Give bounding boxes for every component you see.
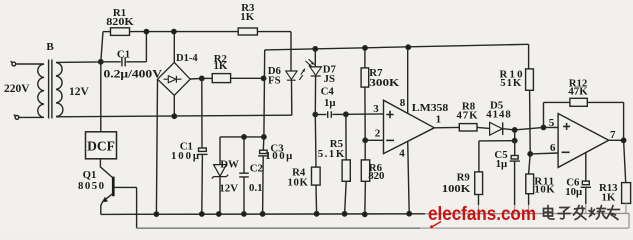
- resistor R1 820K: [103, 28, 130, 36]
- wire node down to C1 100u: [201, 78, 203, 148]
- svg-text:1μ: 1μ: [324, 97, 336, 109]
- diode D5 4148: [490, 122, 503, 135]
- svg-text:1: 1: [436, 113, 442, 125]
- junction C1 100u on ground rail: [200, 212, 204, 216]
- wire D7 anode to wire B: [314, 49, 316, 67]
- junction R2 right: [261, 76, 265, 80]
- resistor R8 47K: [459, 124, 477, 131]
- svg-text:4: 4: [399, 147, 405, 159]
- wire C5 node short drop: [514, 130, 516, 141]
- svg-text:2: 2: [375, 128, 381, 140]
- svg-text:12V: 12V: [219, 183, 238, 195]
- wire R12 left to tap: [544, 102, 570, 127]
- wire R3 to D6 drop: [257, 32, 291, 71]
- wire op-amp1 output to R8: [434, 126, 459, 128]
- LED D7 JS: [310, 67, 322, 76]
- wire R4 top (shares D7/C4 node line): [314, 115, 317, 168]
- svg-text:100μ: 100μ: [265, 150, 292, 162]
- junction R7 on wire B: [363, 46, 367, 50]
- wire pin2 into op-amp: [365, 139, 383, 141]
- wire R1 left vertical: [101, 32, 103, 62]
- svg-text:300K: 300K: [369, 77, 400, 89]
- svg-text:1K: 1K: [240, 11, 254, 23]
- bridge rectifier D1-4: [158, 62, 191, 95]
- svg-text:820: 820: [368, 170, 384, 182]
- svg-text:3: 3: [373, 103, 379, 115]
- watermark chinese 电子发烧友: [544, 206, 620, 220]
- wire secondary top to node C1: [56, 61, 101, 64]
- wire R9 to ground rail: [478, 195, 480, 206]
- svg-text:0.1: 0.1: [249, 182, 263, 194]
- resistor R2 1K: [202, 74, 231, 83]
- junction C2 on ground rail: [242, 212, 246, 216]
- junction C5 top node: [513, 128, 517, 132]
- svg-text:C4: C4: [321, 85, 335, 97]
- char you: [607, 206, 620, 220]
- wire R7 bottom to pin2 node: [364, 87, 366, 140]
- wire R2 right to node: [231, 77, 264, 79]
- wire output down to R13: [624, 140, 626, 182]
- junction R12 tap: [541, 125, 545, 129]
- wire node to C1 left plate: [101, 61, 121, 63]
- junction C2 top: [242, 135, 246, 139]
- svg-text:B: B: [46, 41, 54, 53]
- wire bridge left corner down to ground rail: [156, 79, 157, 214]
- svg-text:DCF: DCF: [87, 139, 115, 154]
- resistor R10 51K: [526, 69, 534, 90]
- wire pin8 to wire B: [407, 47, 409, 113]
- svg-text:47K: 47K: [457, 109, 479, 121]
- wire R6 to ground rail: [364, 181, 367, 214]
- svg-text:0.2μ/400V: 0.2μ/400V: [104, 67, 163, 81]
- wire D7 cathode down to C4 node: [314, 76, 316, 114]
- svg-text:10μ: 10μ: [565, 186, 582, 198]
- resistor R7 300K: [361, 48, 369, 87]
- capacitor C4 1u: [328, 111, 332, 118]
- transistor Q1 8050: [112, 177, 115, 197]
- svg-text:5: 5: [549, 117, 555, 129]
- svg-text:LM358: LM358: [412, 102, 449, 114]
- capacitor C1 100u electrolytic: [197, 148, 207, 154]
- wire primary top lead: [16, 63, 44, 65]
- svg-text:D1-4: D1-4: [176, 53, 198, 64]
- resistor R3 1K: [238, 28, 257, 35]
- junction DW on ground rail: [217, 212, 221, 216]
- wire pin3 into op-amp: [346, 113, 384, 115]
- junction pin8 on wire B: [406, 45, 410, 49]
- svg-text:C1: C1: [117, 48, 130, 60]
- junction bridge-left on ground rail: [154, 212, 158, 216]
- wire Q1 base to feedback line: [115, 187, 137, 228]
- junction bridge bottom on mid rail: [172, 114, 176, 118]
- svg-text:100μ: 100μ: [171, 150, 199, 162]
- wire C6 to ground rail: [585, 187, 587, 204]
- svg-text:C2: C2: [250, 162, 263, 174]
- minus sign op-amp2: [562, 151, 570, 153]
- junction pin6/R11: [528, 152, 532, 156]
- svg-text:820K: 820K: [106, 16, 134, 28]
- junction pin2/R6: [363, 138, 367, 142]
- char fa: [574, 206, 587, 220]
- svg-text:1K: 1K: [602, 192, 616, 204]
- capacitor C1 0.2u/400V: [122, 57, 125, 66]
- plus sign op-amp2: [563, 123, 570, 130]
- wire B right corner down to R10: [528, 44, 530, 69]
- wire C5 to ground rail: [514, 161, 516, 205]
- resistor R13 1K: [622, 183, 631, 204]
- wire pin6 into op-amp2: [530, 152, 558, 155]
- svg-text:47K: 47K: [568, 85, 588, 97]
- wire op-amp2 output: [609, 139, 624, 141]
- svg-text:10K: 10K: [288, 176, 309, 188]
- junction R4 on ground rail: [314, 212, 318, 216]
- wire R11 to ground rail: [528, 194, 530, 205]
- LED D6 FS: [286, 71, 297, 80]
- svg-text:DW: DW: [220, 159, 239, 171]
- transformer B secondary winding: [56, 62, 63, 116]
- node bridge output junction: [200, 76, 204, 80]
- junction output node: [621, 138, 625, 142]
- transformer B primary winding: [38, 64, 44, 117]
- node junction C1/transformer: [99, 60, 103, 64]
- capacitor C2 0.1: [239, 137, 249, 214]
- Q1 emitter with arrow: [101, 194, 113, 215]
- wire D6 cathode down to mid rail corner: [291, 80, 293, 115]
- wire branch to R9: [479, 141, 515, 172]
- transformer B primary terminal bottom: [14, 115, 19, 120]
- feedback base line darker left part: [137, 227, 420, 229]
- char dian: [544, 206, 555, 220]
- resistor R4 10K: [312, 167, 321, 214]
- svg-text:1μ: 1μ: [496, 158, 508, 170]
- wire bridge right corner to node: [190, 77, 202, 80]
- zener diode DW 12V: [212, 137, 228, 214]
- svg-text:8050: 8050: [78, 180, 104, 192]
- svg-text:Q1: Q1: [83, 169, 97, 181]
- wire into pin5: [544, 126, 559, 128]
- junction pin4 on ground rail: [407, 212, 411, 216]
- wire DW node horizontal: [220, 136, 264, 138]
- junction R5 on ground rail: [342, 212, 346, 216]
- svg-text:100K: 100K: [442, 183, 471, 195]
- junction R5 top: [344, 112, 348, 116]
- op-amp U2: [558, 114, 609, 168]
- wire B top rail sloped: [265, 44, 529, 50]
- junction bridge top on wire A: [172, 29, 176, 33]
- svg-text:5.1K: 5.1K: [318, 148, 345, 160]
- svg-text:6: 6: [550, 142, 556, 154]
- svg-text:220V: 220V: [4, 83, 30, 95]
- capacitor C6 10u electrolytic: [581, 153, 592, 188]
- svg-text:12V: 12V: [69, 86, 90, 98]
- transformer B core: [49, 60, 52, 119]
- char zi: [558, 208, 570, 219]
- capacitor C5 1u electrolytic: [510, 141, 520, 161]
- svg-text:7: 7: [610, 129, 616, 141]
- flash arrow of D6: [299, 69, 304, 80]
- junction C3 on ground rail: [260, 212, 264, 216]
- wire C4 to R5 node: [332, 113, 346, 115]
- watermark elecfans.com: [428, 203, 536, 228]
- wire primary bottom lead: [19, 116, 44, 118]
- wire R13 to ground rail: [625, 203, 627, 213]
- resistor R12 47K: [570, 98, 587, 106]
- junction C4 left node: [313, 112, 317, 116]
- wire pin4 to ground rail: [408, 141, 410, 213]
- svg-text:FS: FS: [268, 74, 281, 86]
- capacitor C3 100u electrolytic: [258, 137, 268, 214]
- char shao: [589, 206, 607, 220]
- svg-text:51K: 51K: [500, 77, 522, 89]
- junction D7 on wire B: [313, 47, 317, 51]
- junction R6 on ground rail: [363, 212, 367, 216]
- wire R10 to pin6 node: [529, 90, 532, 154]
- wire A R1 to R3: [130, 31, 239, 33]
- svg-text:R9: R9: [457, 171, 471, 183]
- receive arrows into D7: [305, 59, 313, 66]
- svg-text:4148: 4148: [486, 109, 511, 121]
- svg-text:10K: 10K: [534, 184, 555, 196]
- op-amp U1 LM358: [384, 100, 435, 153]
- feedback base line gray: [137, 227, 629, 229]
- resistor R11 10K: [526, 154, 534, 194]
- junction R1/C1 on wire A: [144, 29, 148, 33]
- resistor R5 5.1K: [342, 114, 350, 181]
- wire DCF to Q1 collector: [100, 159, 113, 178]
- wire C1 right plate to R1 right: [126, 32, 146, 62]
- resistor R6 820: [361, 140, 369, 181]
- wire DCF supply drop: [100, 62, 102, 132]
- transformer B primary terminal top: [11, 61, 16, 66]
- wire bridge top to wire A: [173, 32, 175, 63]
- plus sign op-amp1: [386, 111, 393, 118]
- junction DW node right: [262, 135, 266, 139]
- svg-text:1K: 1K: [214, 60, 228, 72]
- resistor R9 100K: [475, 172, 483, 195]
- svg-text:JS: JS: [324, 73, 335, 85]
- ground rail bottom: [101, 213, 425, 216]
- wire R5 to ground rail: [345, 181, 347, 214]
- minus sign op-amp1: [386, 139, 394, 141]
- wire bridge bottom to mid rail: [173, 95, 175, 116]
- wire R8 to D5: [477, 126, 490, 129]
- wire D5 to C5 node: [503, 129, 515, 130]
- junction R9 branch: [513, 139, 517, 143]
- wire C1 100u to ground rail: [201, 154, 204, 214]
- wire signal to R12 tap: [515, 127, 544, 129]
- DCF module box: [86, 132, 117, 159]
- svg-text:elecfans.com: elecfans.com: [428, 203, 536, 225]
- svg-text:8: 8: [400, 97, 406, 109]
- wire B corner vertical down to DW node: [263, 50, 266, 137]
- wire output up to R12: [587, 102, 623, 140]
- wire node to C4: [315, 114, 326, 116]
- wire mid rail (secondary bottom to D6 cathode branch): [56, 115, 292, 117]
